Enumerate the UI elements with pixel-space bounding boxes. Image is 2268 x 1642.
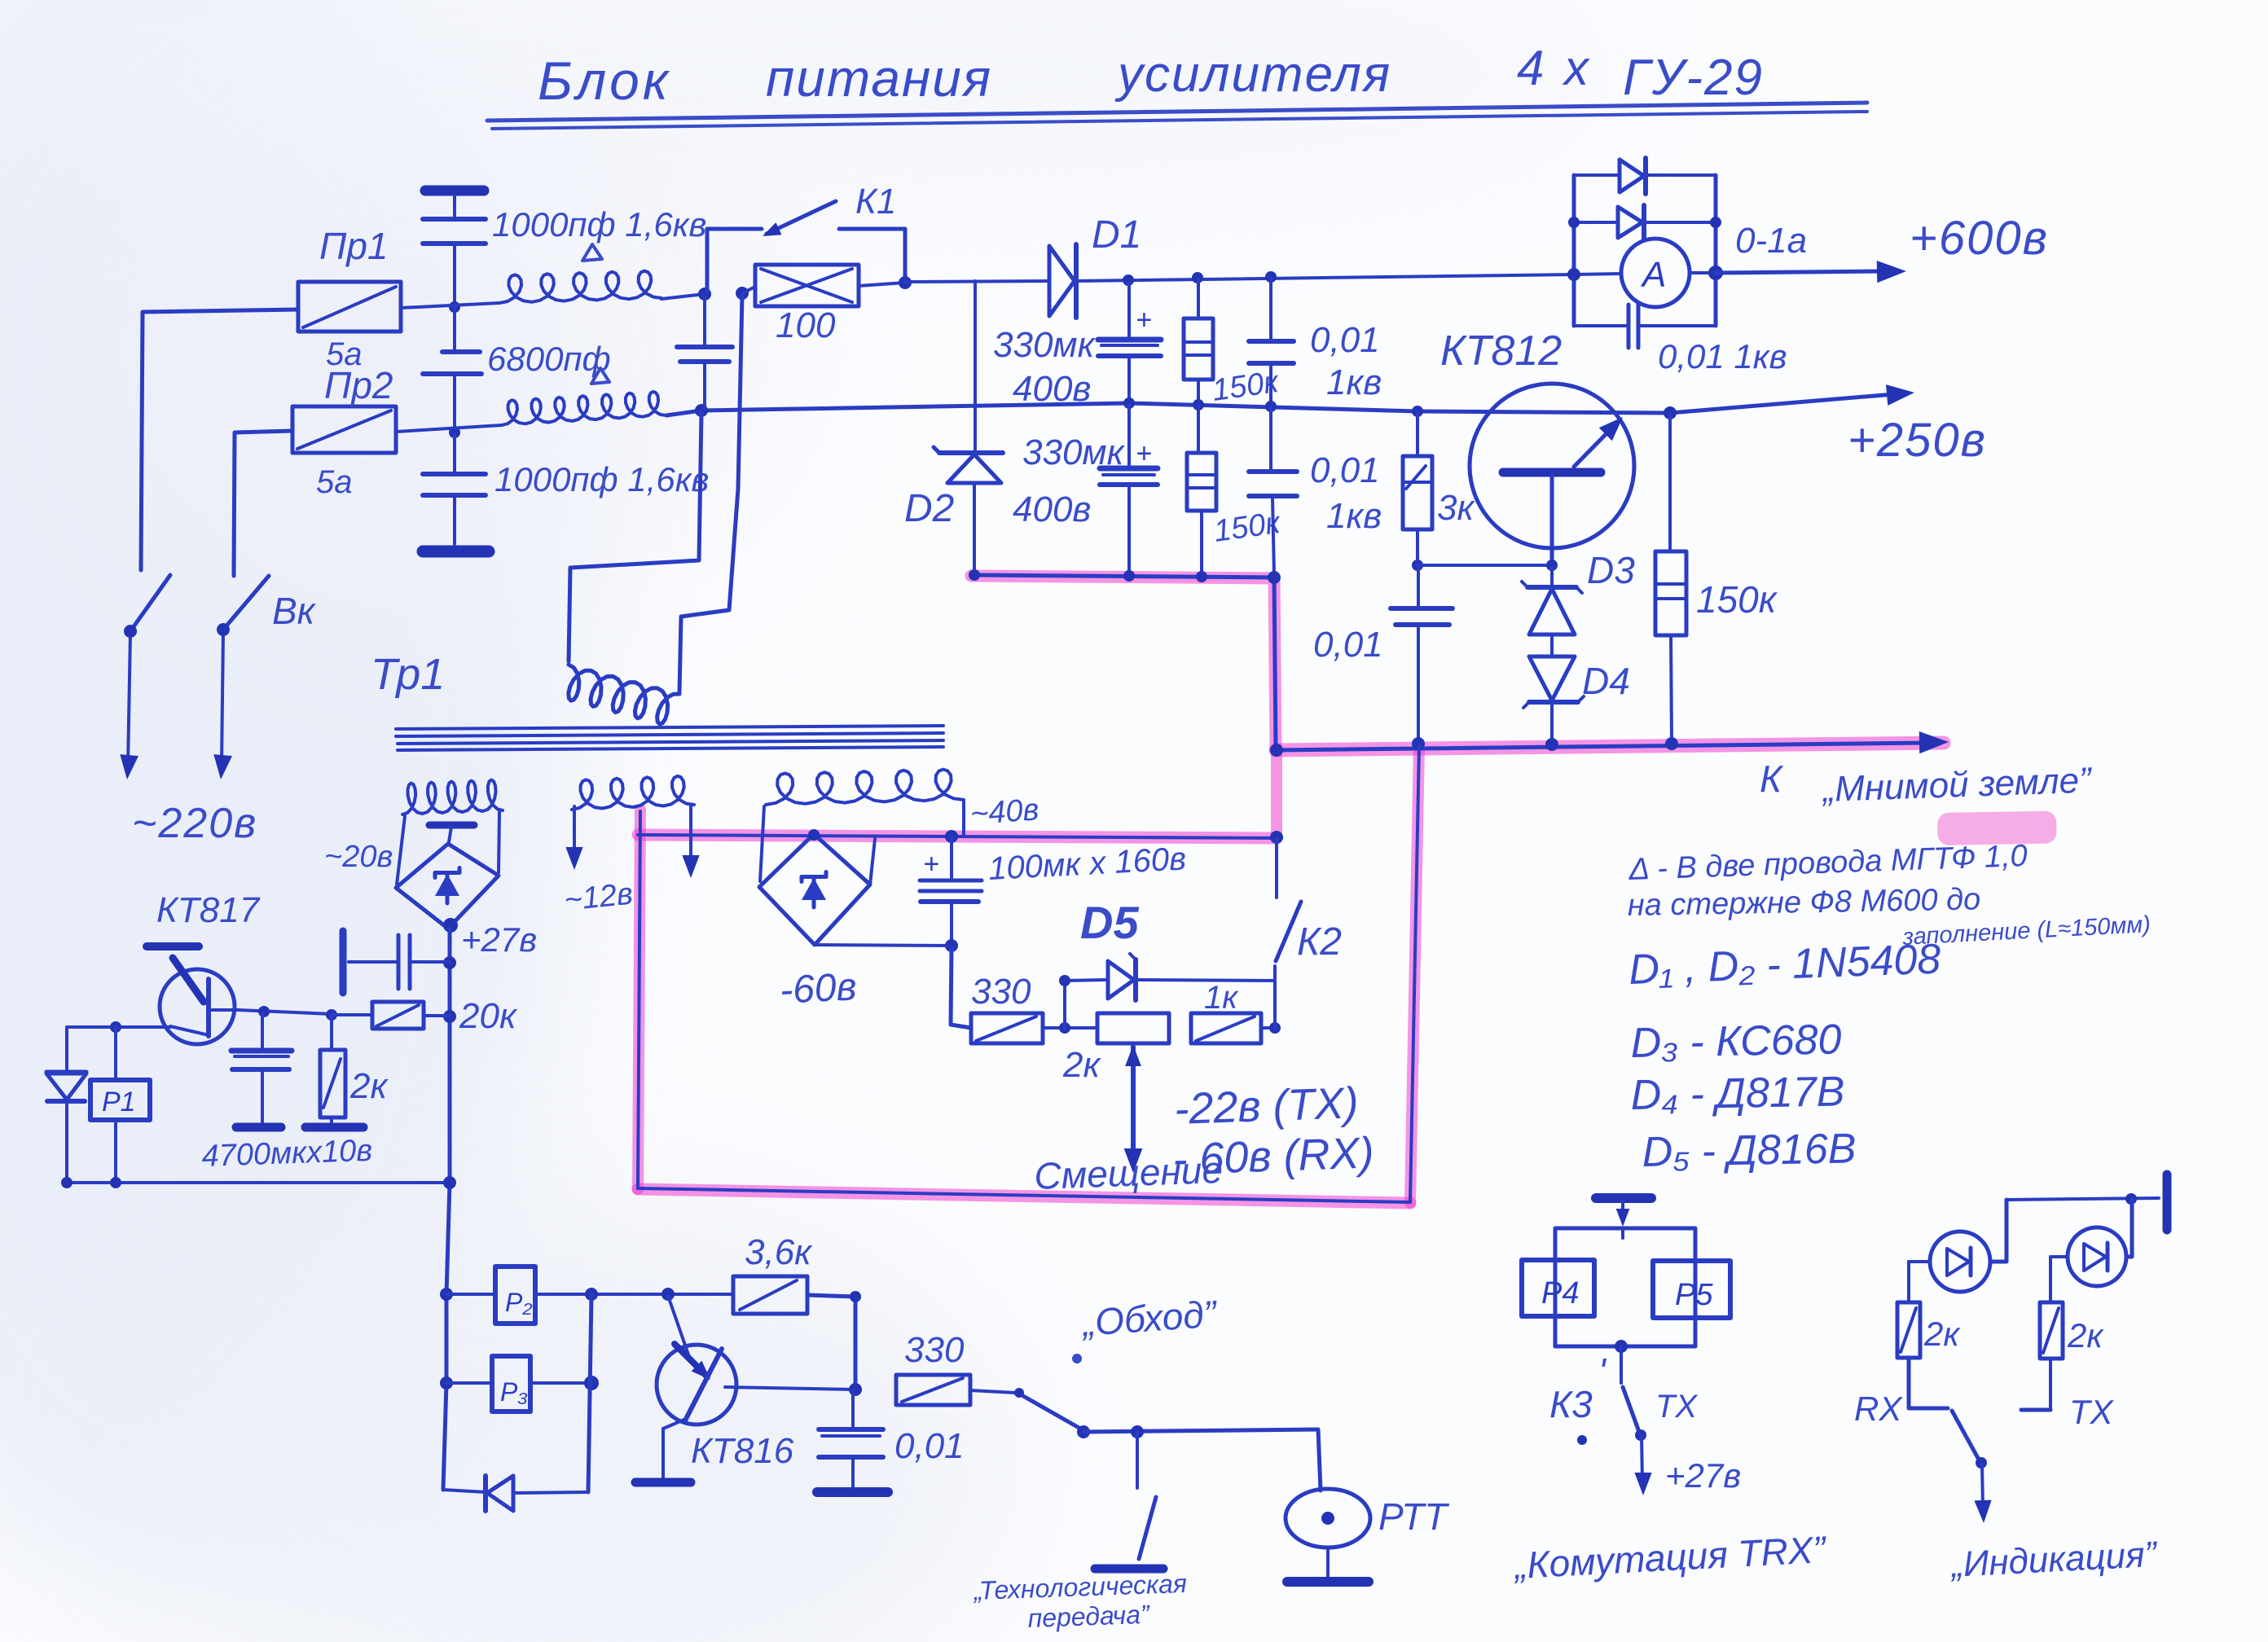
svg-text:0,01: 0,01: [1313, 625, 1383, 665]
label D1: [1092, 213, 1141, 257]
switch K1 lever: [763, 201, 836, 236]
wire KT817 emitter: [67, 1025, 170, 1029]
node 330mk bottom cap top: [1123, 397, 1135, 409]
wire 330 to pot: [1043, 1026, 1097, 1030]
label bias Smeshchenie: [1034, 1148, 1224, 1197]
svg-text:400в: 400в: [1013, 490, 1091, 529]
switch Vk pole 1: [128, 575, 170, 766]
label 1kv bottom: [1326, 496, 1382, 536]
resistor 330 kt816: [896, 1375, 1016, 1405]
svg-text:К1: К1: [855, 182, 896, 222]
label 20k: [459, 996, 518, 1036]
label Komutacia TRX: [1512, 1528, 1829, 1587]
node resistor input: [736, 287, 749, 300]
node 330mk lower rail: [1123, 570, 1135, 582]
label +250v: [1848, 414, 1987, 467]
svg-text:ТХ: ТХ: [2069, 1393, 2115, 1431]
label D3: [1587, 549, 1635, 591]
svg-text:4 х: 4 х: [1517, 41, 1592, 95]
svg-text:К: К: [1760, 757, 1784, 800]
label TX ind: [2069, 1393, 2115, 1431]
wire K1 contact: [839, 229, 905, 280]
label Obhod: [1072, 1292, 1220, 1363]
label 1k bias: [1204, 980, 1239, 1016]
node rail K2 riser: [1270, 744, 1283, 757]
node K2 riser top: [1270, 831, 1283, 844]
wire fuse2 to L2: [396, 425, 502, 432]
arrow mains input 1: [120, 754, 138, 779]
svg-text:100: 100: [776, 305, 836, 345]
node bias cap tap: [945, 830, 958, 843]
node bias cap bottom: [945, 939, 958, 952]
svg-text:330: 330: [904, 1330, 965, 1370]
primary winding Tr1: [569, 665, 679, 724]
arrow +250v: [1886, 384, 1914, 406]
svg-text:Р1: Р1: [102, 1087, 136, 1117]
winding 20v center bar: [429, 825, 474, 842]
svg-text:Пр2: Пр2: [324, 364, 393, 406]
node fuse2-cap junction: [449, 427, 460, 438]
label 150k top: [1210, 365, 1281, 408]
svg-text:+600в: +600в: [1910, 212, 2049, 265]
svg-text:+27в: +27в: [461, 920, 537, 959]
svg-text:~40в: ~40в: [969, 792, 1040, 832]
svg-text:330: 330: [971, 972, 1031, 1012]
svg-text:3,6к: 3,6к: [745, 1232, 813, 1272]
node 3.6k corner: [850, 1291, 861, 1302]
relay P4: [1522, 1260, 1594, 1316]
wire winding 40v left lead: [760, 806, 764, 881]
svg-text:+: +: [923, 849, 939, 880]
svg-text:-22в (ТХ): -22в (ТХ): [1173, 1078, 1359, 1134]
label 1kv top: [1326, 362, 1382, 402]
ground bar PTT: [1287, 1577, 1369, 1587]
ground bar bottom of cap chain: [423, 546, 489, 558]
resistor 3k: [1403, 413, 1432, 564]
capacitor 330mk 400v lower: [1100, 405, 1158, 573]
node shunt right top: [1710, 217, 1721, 228]
connector PTT: [1286, 1489, 1370, 1578]
svg-text:0,01 1кв: 0,01 1кв: [1658, 337, 1787, 375]
label K3: [1549, 1350, 1607, 1425]
wire imaginary ground rail: [1276, 743, 1927, 750]
capacitor 100mk 160v: [920, 838, 982, 944]
shunt diode lower: [1618, 205, 1644, 239]
relay block K3 frame: [1555, 1228, 1695, 1346]
node fuse1-cap junction: [449, 301, 460, 313]
svg-text:КТ816: КТ816: [691, 1431, 794, 1471]
svg-text:0,01: 0,01: [1310, 320, 1380, 360]
label 2k TX: [2067, 1316, 2104, 1354]
svg-text:усилителя: усилителя: [1114, 46, 1391, 103]
svg-text:1кв: 1кв: [1326, 362, 1382, 402]
chassis bar top of cap chain: [425, 191, 484, 217]
switch K2: [1275, 839, 1301, 1028]
ground bar KT816: [635, 1478, 691, 1487]
label 330 bias: [971, 972, 1031, 1012]
node shunt left top: [1568, 217, 1580, 228]
shunt diode upper: [1620, 158, 1646, 194]
svg-text:+250в: +250в: [1848, 414, 1987, 467]
label Tr1: [371, 650, 445, 699]
capacitor 0.01 kt816: [819, 1391, 883, 1489]
svg-text:+27в: +27в: [1665, 1456, 1741, 1495]
svg-text:Пр1: Пр1: [319, 225, 389, 267]
node K3 TX contact: [1635, 1429, 1646, 1441]
legend delta note line1: [1628, 839, 2028, 887]
node P2 right: [585, 1288, 598, 1301]
legend delta note line3: [1901, 911, 2152, 951]
wire winding 40v right lead: [962, 801, 965, 834]
node cap 0.01 mid tap: [1265, 401, 1277, 412]
node shunt right mid: [1708, 266, 1723, 280]
node P3 right: [584, 1376, 599, 1390]
resistor 1k bias: [1191, 1013, 1275, 1043]
svg-text:3к: 3к: [1437, 488, 1475, 528]
label 330mk upper: [993, 325, 1097, 365]
arrow indication: [1974, 1464, 1991, 1523]
wire row1 to D1: [905, 281, 1049, 282]
node resistor output: [899, 276, 912, 289]
wire P3 right: [530, 1381, 591, 1385]
svg-text:D₅ - Д816В: D₅ - Д816В: [1642, 1125, 1857, 1176]
label 0.01 bottom: [1310, 450, 1380, 490]
diode thermal P1: [46, 1027, 86, 1183]
delta mark L2: [591, 368, 609, 384]
label Indikacia: [1949, 1534, 2160, 1585]
resistor 150k bottom: [1187, 406, 1216, 573]
svg-text:0-1а: 0-1а: [1735, 221, 1807, 261]
secondary winding 12v: [572, 776, 694, 810]
pink highlight bias box bottom edge: [638, 1189, 1410, 1203]
switch bypass lever: [1014, 1388, 1082, 1429]
node base 2k tap: [326, 1009, 337, 1021]
switch tech transmit: [1137, 1432, 1156, 1559]
node D2 anode rail: [969, 569, 980, 581]
switch indication: [1952, 1411, 1979, 1460]
label 0.01 kt816: [894, 1426, 965, 1466]
wire TX corner: [2021, 1359, 2050, 1410]
node shunt left mid: [1567, 268, 1580, 281]
node corner lower rail: [1268, 571, 1281, 584]
transistor KT817: [147, 946, 238, 1044]
label tech transmit: [972, 1569, 1187, 1633]
capacitor 27v feedthrough: [343, 931, 450, 993]
capacitor 330mk 400v upper: [1098, 283, 1161, 401]
arrow +27v K3: [1634, 1437, 1651, 1495]
node cap 0.01 top tap: [1265, 271, 1277, 283]
label ~12v: [563, 876, 635, 918]
svg-text:А: А: [1640, 255, 1666, 295]
node L1 output: [698, 288, 711, 301]
legend D5: [1642, 1125, 1857, 1176]
node indication top: [2125, 1193, 2137, 1205]
node 150k top tap: [1192, 272, 1203, 283]
label 400v upper: [1013, 369, 1091, 409]
label K imaginary ground: [1760, 757, 2094, 810]
switch pivot dot 2: [217, 623, 230, 636]
wire winding 20v right lead: [499, 812, 499, 872]
wire mains N to fuse Pr2: [234, 431, 292, 576]
wire D5 branch: [1065, 980, 1275, 1028]
title underline: [487, 103, 1867, 129]
label 100mk 160v: [987, 841, 1187, 887]
wire +600v out: [1716, 271, 1888, 273]
node KT816 collector tap: [661, 1288, 675, 1301]
capacitor 6800pf: [423, 309, 481, 430]
svg-text:0,01: 0,01: [1310, 450, 1380, 490]
wire led RX leads: [1909, 1200, 2006, 1301]
ground bar 0.01 kt816: [817, 1487, 888, 1497]
svg-text:D5: D5: [1080, 897, 1139, 948]
dot K3 NC contact: [1577, 1435, 1587, 1445]
label +27v K3: [1665, 1456, 1741, 1495]
capacitor 0.01 1kv shunt: [1628, 305, 1638, 348]
led TX: [2068, 1227, 2126, 1286]
label D2: [904, 487, 954, 530]
pink highlight on imaginary-ground rail: [1276, 743, 1944, 750]
svg-text:D₃ - КС680: D₃ - КС680: [1630, 1016, 1842, 1067]
node bias top bridge vertex: [808, 829, 820, 841]
arrow into K3 block: [1616, 1201, 1630, 1227]
node indication contact: [1976, 1457, 1987, 1469]
wire row2 rail: [666, 394, 1894, 415]
svg-text:Р5: Р5: [1675, 1278, 1713, 1312]
label 5a fuse1: [326, 336, 363, 372]
label 2k RX: [1923, 1315, 1961, 1353]
wire cap to 330: [951, 947, 971, 1028]
ammeter shunt frame: [1574, 175, 1716, 326]
svg-text:D4: D4: [1582, 660, 1630, 702]
node base cap tap: [258, 1006, 270, 1017]
node L2 output: [695, 404, 708, 417]
label PTT: [1378, 1495, 1449, 1538]
label Pr1: [319, 225, 389, 267]
potentiometer 2k bias: [1097, 1013, 1169, 1043]
fuse Pr1: [298, 282, 401, 331]
label KT817: [156, 890, 261, 930]
schematic title text: [538, 41, 1764, 111]
label D5: [1080, 897, 1139, 948]
wire winding 20v left lead: [397, 816, 405, 885]
diode D2 (zener): [934, 447, 1003, 573]
label 4700mk: [201, 1134, 373, 1174]
node KT812 emitter tap: [1664, 406, 1677, 419]
legend delta note line2: [1627, 882, 1980, 923]
label KT816: [691, 1431, 794, 1471]
label 0.01 base: [1313, 625, 1383, 665]
svg-text:РТТ: РТТ: [1378, 1495, 1449, 1538]
svg-text:D1: D1: [1092, 213, 1141, 257]
wire KT817 base: [238, 1010, 332, 1014]
label 6800pf: [487, 340, 611, 378]
transistor KT812: [1470, 384, 1634, 564]
svg-text:6800пф: 6800пф: [487, 340, 611, 378]
arrow imaginary ground: [1919, 731, 1949, 753]
arrow +600v: [1877, 261, 1906, 283]
zener D4: [1523, 656, 1584, 743]
wire lower HV ground: [974, 575, 1276, 749]
label 150k emitter: [1696, 578, 1778, 621]
switch Vk pole 2: [222, 576, 269, 766]
svg-text:D3: D3: [1587, 549, 1635, 591]
delta mark L1: [582, 244, 602, 261]
svg-text:1кв: 1кв: [1326, 496, 1382, 536]
label 330 kt816: [904, 1330, 965, 1370]
node 150k lower rail: [1196, 571, 1207, 582]
resistor 330 bias: [971, 1013, 1043, 1043]
node K3 common: [1615, 1340, 1628, 1353]
ground bar 2k reg: [305, 1123, 363, 1132]
label Vk: [272, 590, 317, 632]
wire KT812 base: [1417, 564, 1552, 567]
svg-text:2к: 2к: [2067, 1316, 2104, 1354]
wire indication top: [2006, 1198, 2159, 1200]
diode D1: [1049, 244, 1076, 318]
wire row1 node to primary right: [679, 295, 742, 692]
label -60v: [779, 965, 858, 1012]
svg-text:Вк: Вк: [272, 590, 317, 632]
svg-text:ГУ-29: ГУ-29: [1623, 50, 1764, 106]
label 2k bias: [1062, 1045, 1101, 1085]
capacitor 1000pf upper: [423, 219, 486, 305]
wire 3.6k to base node: [807, 1295, 855, 1389]
label 5a fuse2: [316, 464, 353, 500]
legend D3: [1630, 1016, 1842, 1067]
resistor 2k TX: [2040, 1302, 2063, 1359]
transformer core: [396, 726, 943, 750]
wire led TX leads: [2050, 1200, 2132, 1301]
label 150k bottom: [1211, 506, 1283, 549]
wire bridge 60v to top edge: [870, 839, 875, 885]
legend D4: [1630, 1068, 1845, 1119]
pink highlight on lower HV ground wire: [971, 576, 1276, 750]
label TX k3: [1655, 1389, 1698, 1425]
svg-text:КТ812: КТ812: [1440, 327, 1562, 375]
arrow potentiometer wiper: [1124, 1045, 1143, 1173]
svg-text:К3: К3: [1549, 1383, 1593, 1425]
wire mains L to fuse Pr1: [141, 310, 298, 570]
label KT812: [1440, 327, 1562, 375]
svg-text:Р₃: Р₃: [500, 1377, 528, 1407]
label bias -22v TX: [1173, 1078, 1359, 1134]
svg-text:Тр1: Тр1: [371, 650, 445, 699]
node D1 cathode: [1123, 274, 1134, 286]
resistor 3.6k: [733, 1276, 807, 1314]
label 3k: [1437, 488, 1475, 528]
capacitor 4700mk: [231, 1013, 292, 1124]
node KT816 base right: [849, 1383, 862, 1396]
label 1000pf 1.6kv lower: [494, 460, 709, 498]
node base wire right: [1546, 560, 1558, 571]
svg-text:~12в: ~12в: [563, 876, 635, 918]
label bias -60v RX: [1171, 1128, 1374, 1184]
svg-text:4700мкх10в: 4700мкх10в: [201, 1134, 373, 1174]
label 1000pf 1.6kv upper: [492, 205, 706, 244]
label ~40v: [969, 792, 1040, 832]
wire bypass to PTT: [1083, 1429, 1321, 1491]
secondary winding 20v: [402, 780, 503, 815]
svg-text:Блок: Блок: [538, 50, 671, 111]
wire row1 into ammeter: [1574, 274, 1621, 274]
relay P2: [446, 1267, 535, 1324]
svg-text:0,01: 0,01: [894, 1426, 965, 1466]
resistor 150k emitter: [1655, 415, 1686, 742]
relay P3: [446, 1356, 530, 1412]
svg-text:+: +: [1136, 438, 1152, 469]
svg-text:+: +: [1136, 305, 1152, 336]
capacitor 0.01 1kv bottom: [1249, 408, 1297, 575]
legend D1 D2: [1628, 936, 1941, 994]
secondary winding 40v: [766, 770, 964, 805]
label 0-1a: [1735, 221, 1807, 261]
capacitor 0.01 base: [1391, 567, 1453, 742]
chassis bar K3: [1596, 1193, 1651, 1203]
svg-text:питания: питания: [766, 49, 992, 108]
label D4: [1582, 660, 1630, 702]
arrow mains input 2: [213, 754, 232, 779]
transistor KT816: [657, 1296, 855, 1479]
capacitor link between rows: [677, 296, 732, 409]
label RX: [1854, 1390, 1903, 1428]
node 27v 20k tap: [443, 1010, 456, 1023]
node bridge 27v output: [443, 918, 458, 933]
resistor 150k top: [1184, 279, 1213, 404]
zener D3: [1522, 567, 1582, 655]
node 1k right: [1269, 1022, 1281, 1034]
diode D5 (zener): [1108, 954, 1136, 1000]
wire bias box top edge: [638, 835, 1277, 838]
wire row2 node to primary left: [569, 412, 701, 661]
wire RX corner: [1909, 1358, 1948, 1408]
capacitor 1000pf lower: [423, 434, 486, 544]
node rail 0.01 tap: [1412, 737, 1425, 750]
label Pr2: [324, 364, 393, 406]
label 400v lower: [1013, 490, 1091, 529]
svg-text:КТ817: КТ817: [156, 890, 261, 930]
wire bias box bottom edge: [638, 1188, 1410, 1202]
ground bar 4700mk: [236, 1123, 281, 1132]
resistor 100: [742, 265, 905, 306]
relay P5: [1653, 1261, 1730, 1318]
svg-text:на стержне Ф8 М600 до: на стержне Ф8 М600 до: [1627, 882, 1980, 923]
svg-text:D₄ - Д817В: D₄ - Д817В: [1630, 1068, 1845, 1119]
svg-text:Р₂: Р₂: [505, 1288, 533, 1317]
ammeter A: [1621, 239, 1690, 307]
svg-text:1000пф 1,6кв: 1000пф 1,6кв: [492, 205, 706, 244]
led RX: [1930, 1231, 1990, 1292]
label ~20v: [324, 840, 393, 874]
wire K1 branch up: [707, 229, 762, 292]
svg-text:150к: 150к: [1696, 578, 1778, 621]
wire P2P3 right vertical: [588, 1294, 591, 1492]
svg-text:К2: К2: [1297, 920, 1342, 964]
resistor 2k RX: [1897, 1302, 1920, 1358]
wire D1 to ammeter: [1076, 274, 1574, 281]
label 3.6k: [745, 1232, 813, 1272]
wire P2 to 3.6k: [535, 1293, 733, 1296]
node emitter P1 tap: [110, 1021, 121, 1033]
label K1: [855, 182, 896, 222]
label K2: [1297, 920, 1342, 964]
wire bias box right edge: [1410, 746, 1419, 1202]
inductor L1: [499, 271, 661, 303]
node tech switch tap: [1131, 1425, 1144, 1438]
node bypass contact: [1077, 1425, 1090, 1438]
svg-text:D2: D2: [904, 487, 954, 530]
node bottom rail 27v: [443, 1176, 456, 1189]
svg-text:5а: 5а: [316, 464, 353, 500]
